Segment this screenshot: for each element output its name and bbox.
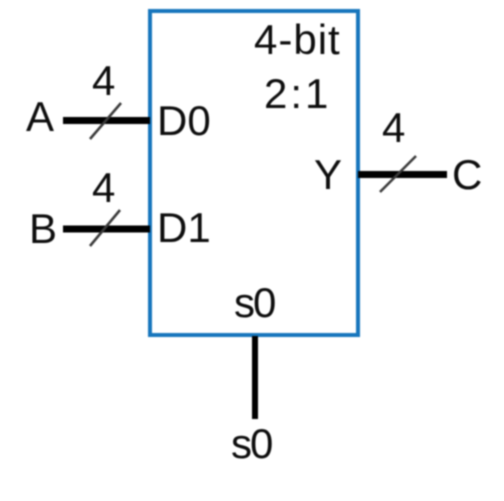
node A input label — [26, 96, 54, 138]
node s0 label — [231, 423, 271, 465]
bus-width slash on B wire — [90, 210, 120, 246]
pin D0 label — [157, 100, 211, 142]
pin s0 select label — [234, 282, 274, 324]
wire s0 select input — [252, 336, 258, 419]
bus width 4 label on A wire — [92, 60, 115, 102]
pin D1 label — [157, 207, 211, 249]
bus-width slash on A wire — [90, 103, 121, 139]
mux U1 body (4-bit 2:1 multiplexer box) — [150, 11, 358, 335]
bus width 4 label on Y wire — [382, 107, 405, 149]
value label 4-bit — [254, 19, 341, 61]
pin Y output label — [314, 154, 342, 196]
bus width 4 label on B wire — [92, 167, 115, 209]
node B input label — [29, 208, 57, 250]
wire Y to C — [358, 171, 447, 178]
wire A to D0 — [63, 117, 150, 124]
bus-width slash on Y wire — [380, 156, 416, 192]
node C output label — [452, 154, 482, 196]
value label 2:1 — [264, 73, 331, 115]
wire B to D1 — [63, 226, 150, 233]
